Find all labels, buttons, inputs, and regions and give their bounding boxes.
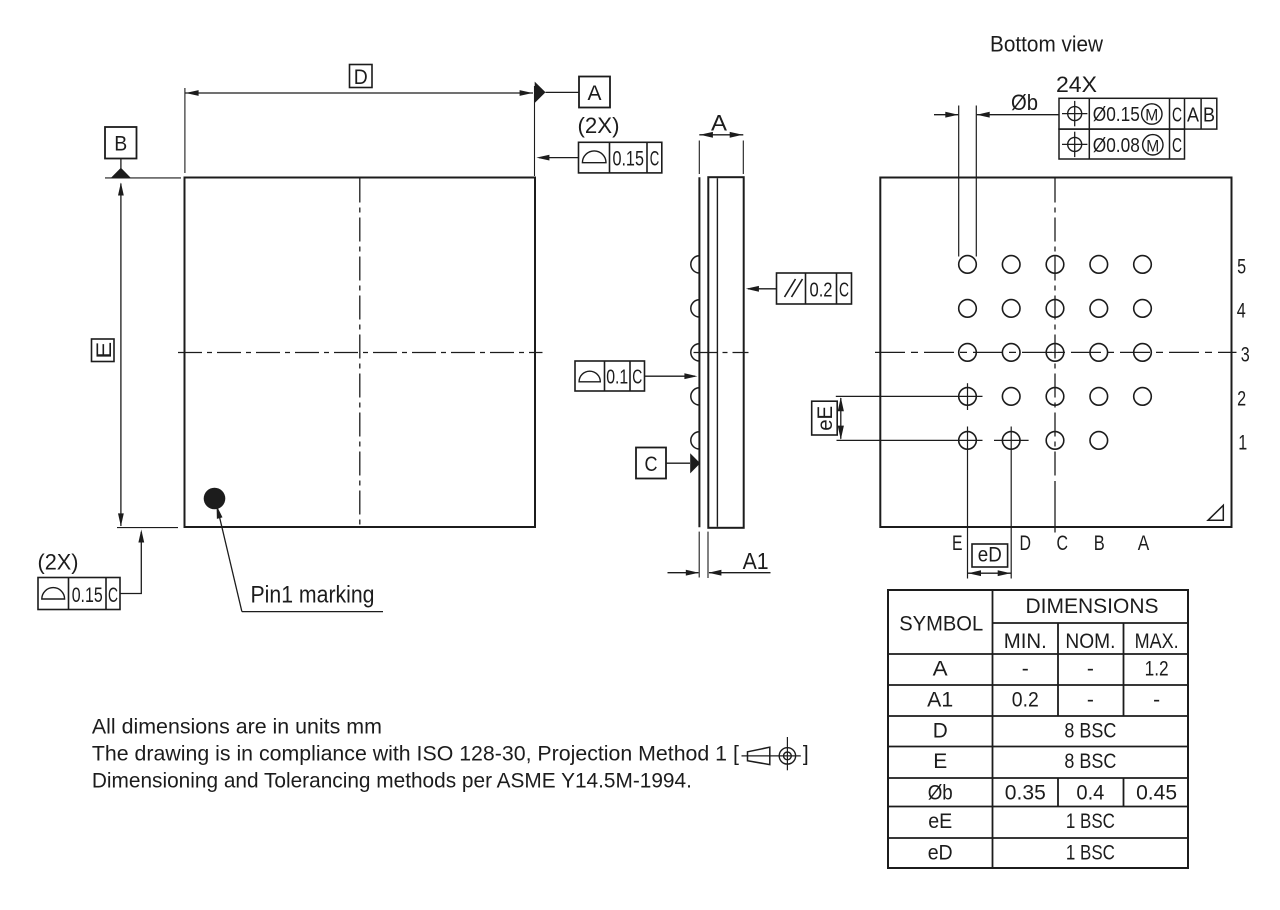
svg-text:8 BSC: 8 BSC	[1064, 750, 1116, 773]
svg-text:DIMENSIONS: DIMENSIONS	[1026, 595, 1159, 618]
svg-text:0.2: 0.2	[1012, 688, 1039, 711]
svg-text:The drawing is in compliance w: The drawing is in compliance with ISO 12…	[92, 742, 739, 765]
svg-text:C: C	[108, 584, 118, 607]
svg-text:E: E	[952, 531, 963, 555]
svg-text:0.4: 0.4	[1076, 781, 1104, 804]
svg-text:E: E	[933, 750, 947, 773]
svg-text:Dimensioning and Tolerancing m: Dimensioning and Tolerancing methods per…	[92, 769, 692, 792]
svg-text:C: C	[1172, 104, 1182, 126]
svg-text:1 BSC: 1 BSC	[1066, 810, 1115, 833]
svg-text:-: -	[1153, 688, 1160, 711]
svg-text:D: D	[354, 66, 368, 89]
svg-text:Øb: Øb	[928, 781, 953, 804]
svg-text:B: B	[114, 133, 127, 156]
svg-text:E: E	[92, 342, 116, 359]
svg-text:8 BSC: 8 BSC	[1064, 719, 1116, 742]
svg-text:5: 5	[1237, 255, 1246, 279]
svg-text:Pin1 marking: Pin1 marking	[251, 582, 375, 609]
svg-text:Ø0.15: Ø0.15	[1093, 104, 1140, 126]
svg-text:0.15: 0.15	[72, 584, 103, 607]
svg-text:0.15: 0.15	[612, 147, 644, 170]
svg-text:1 BSC: 1 BSC	[1066, 841, 1115, 864]
svg-text:D: D	[1020, 531, 1032, 555]
svg-text:eD: eD	[928, 841, 953, 864]
svg-text:A: A	[933, 657, 948, 680]
svg-text:0.1: 0.1	[606, 366, 628, 388]
svg-text:1: 1	[1238, 431, 1247, 455]
svg-text:2: 2	[1237, 387, 1246, 411]
svg-text:A: A	[588, 82, 602, 105]
svg-text:(2X): (2X)	[38, 550, 79, 575]
svg-text:A1: A1	[927, 688, 953, 711]
svg-text:A: A	[711, 110, 727, 135]
svg-text:MAX.: MAX.	[1135, 630, 1179, 653]
svg-text:eD: eD	[978, 543, 1002, 566]
svg-text:MIN.: MIN.	[1004, 630, 1047, 653]
svg-text:C: C	[1172, 135, 1182, 157]
svg-text:]: ]	[803, 742, 809, 765]
svg-text:C: C	[650, 147, 660, 170]
svg-text:M: M	[1145, 106, 1158, 125]
svg-text:C: C	[1057, 531, 1069, 555]
svg-text:Bottom view: Bottom view	[990, 32, 1103, 57]
svg-text:-: -	[1087, 657, 1094, 680]
svg-text:eE: eE	[814, 406, 837, 431]
svg-text:SYMBOL: SYMBOL	[899, 612, 983, 635]
svg-text:A1: A1	[743, 548, 769, 574]
svg-text:A: A	[1187, 104, 1200, 126]
svg-text:24X: 24X	[1056, 72, 1097, 97]
svg-text:Øb: Øb	[1011, 90, 1038, 115]
svg-text:4: 4	[1237, 299, 1246, 323]
svg-text:1.2: 1.2	[1145, 657, 1169, 680]
svg-text:-: -	[1087, 688, 1094, 711]
svg-text:eE: eE	[928, 810, 952, 833]
svg-text:C: C	[839, 279, 849, 301]
svg-text:3: 3	[1241, 343, 1250, 367]
svg-text:A: A	[1138, 531, 1150, 555]
svg-text:B: B	[1203, 104, 1215, 126]
svg-text:D: D	[933, 719, 948, 742]
svg-text:0.2: 0.2	[810, 279, 833, 301]
svg-text:All dimensions are in units mm: All dimensions are in units mm	[92, 715, 382, 738]
svg-text:0.35: 0.35	[1005, 781, 1046, 804]
svg-text:Ø0.08: Ø0.08	[1093, 135, 1140, 157]
svg-text:(2X): (2X)	[578, 113, 620, 138]
svg-text:M: M	[1146, 136, 1159, 155]
svg-text:C: C	[645, 453, 658, 476]
svg-text:NOM.: NOM.	[1065, 630, 1115, 653]
svg-text:B: B	[1094, 531, 1105, 555]
svg-text:-: -	[1022, 657, 1029, 680]
svg-text:C: C	[632, 366, 642, 388]
svg-text:0.45: 0.45	[1136, 781, 1177, 804]
